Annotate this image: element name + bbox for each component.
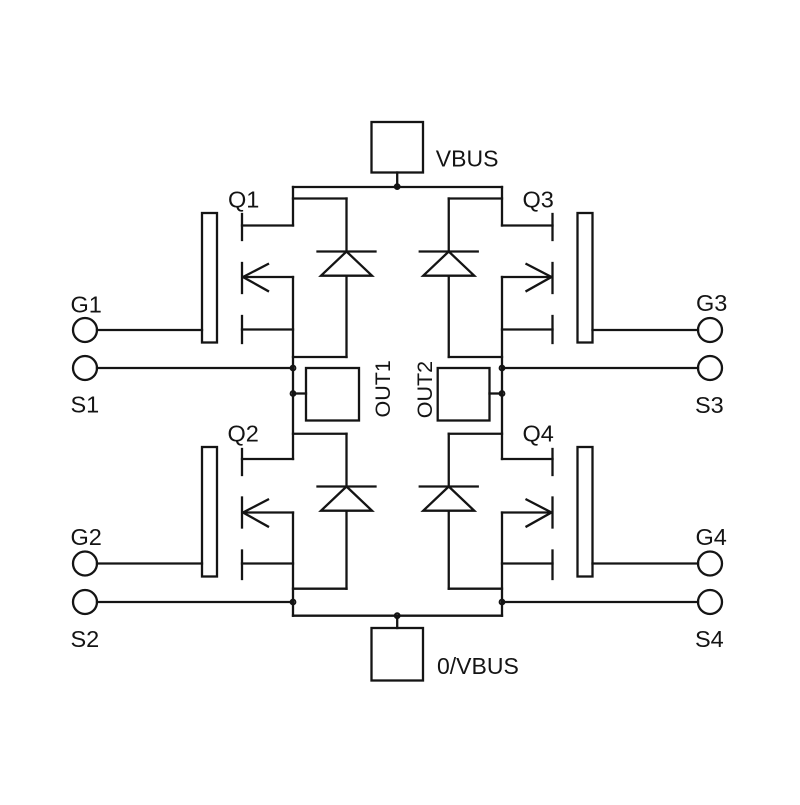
svg-text:S3: S3 [695, 392, 724, 418]
svg-text:OUT2: OUT2 [413, 361, 437, 418]
svg-text:Q1: Q1 [228, 187, 259, 213]
svg-text:Q4: Q4 [523, 421, 554, 447]
node OUT2 box [438, 368, 490, 421]
terminal G2 [73, 552, 97, 576]
wire S4 lead [502, 601, 698, 603]
power port VBUS box [372, 122, 424, 173]
terminal S2 [73, 590, 97, 614]
wire 0/VBUS bottom rail [293, 615, 502, 617]
node OUT1 box [306, 368, 359, 421]
wire Q4 drain-to-diode branch [449, 433, 502, 435]
wire Q2 drain-to-diode branch [293, 433, 347, 435]
junction OUT2 stub [500, 391, 505, 396]
junction bottom rail center [395, 613, 400, 618]
wire Q2 source drop to bottom rail [292, 513, 294, 616]
terminal S1 [73, 356, 97, 380]
wire D4 anode connector [449, 588, 502, 590]
transistor Q1 [202, 213, 293, 343]
svg-text:S2: S2 [71, 626, 100, 652]
diode D1 body diode of Q1 [318, 199, 376, 358]
svg-text:G1: G1 [71, 292, 102, 318]
terminal G1 [73, 318, 97, 342]
wire Q3 drain-to-diode branch [449, 197, 502, 199]
transistor Q2 [202, 447, 293, 579]
junction S2 on left bus [291, 600, 296, 605]
junction OUT1 stub [291, 391, 296, 396]
wire S3 lead [502, 367, 698, 369]
terminal G4 [698, 552, 722, 576]
svg-text:Q3: Q3 [523, 187, 554, 213]
junction S3 on right bus [500, 366, 505, 371]
svg-text:G4: G4 [696, 524, 727, 550]
svg-text:0/VBUS: 0/VBUS [437, 653, 519, 679]
svg-text:Q2: Q2 [228, 421, 259, 447]
wire G4 lead [593, 562, 699, 564]
wire D3 anode connector [449, 356, 502, 358]
wire Q3 source bus down to Q4 drain [501, 277, 503, 459]
transistor Q3 [502, 213, 593, 343]
wire S1 lead [97, 367, 293, 369]
wire VBUS stub [396, 173, 398, 188]
wire OUT2 stub [490, 392, 503, 394]
wire G2 lead [97, 562, 202, 564]
wire Q1 drain-to-diode branch [293, 197, 347, 199]
junction S4 on right bus [500, 600, 505, 605]
wire OUT1 stub [293, 392, 306, 394]
terminal G3 [698, 318, 722, 342]
svg-text:S1: S1 [71, 392, 100, 418]
terminal S3 [698, 356, 722, 380]
svg-text:G3: G3 [696, 290, 727, 316]
wire S2 lead [97, 601, 293, 603]
diode D2 body diode of Q2 [318, 434, 376, 589]
wire Q3 drain drop [501, 187, 503, 226]
junction VBUS rail center [395, 184, 400, 189]
svg-text:OUT1: OUT1 [371, 360, 395, 417]
wire D2 anode connector [293, 588, 347, 590]
diode D4 body diode of Q4 [420, 434, 478, 589]
svg-text:S4: S4 [695, 626, 724, 652]
svg-text:VBUS: VBUS [436, 146, 499, 172]
wire G3 lead [593, 329, 699, 331]
wire Q1 drain drop [292, 187, 294, 226]
terminal S4 [698, 590, 722, 614]
wire Q1 source bus down to Q2 drain [292, 277, 294, 459]
wire VBUS rail [293, 186, 502, 188]
wire Q4 source drop to bottom rail [501, 513, 503, 616]
junction S1 on left bus [291, 366, 296, 371]
svg-text:G2: G2 [71, 524, 102, 550]
wire G1 lead [97, 329, 202, 331]
wire D1 anode connector [293, 356, 347, 358]
transistor Q4 [502, 447, 593, 579]
wire 0/VBUS stub [396, 616, 398, 628]
diode D3 body diode of Q3 [420, 199, 478, 358]
power port 0/VBUS box [372, 628, 424, 681]
